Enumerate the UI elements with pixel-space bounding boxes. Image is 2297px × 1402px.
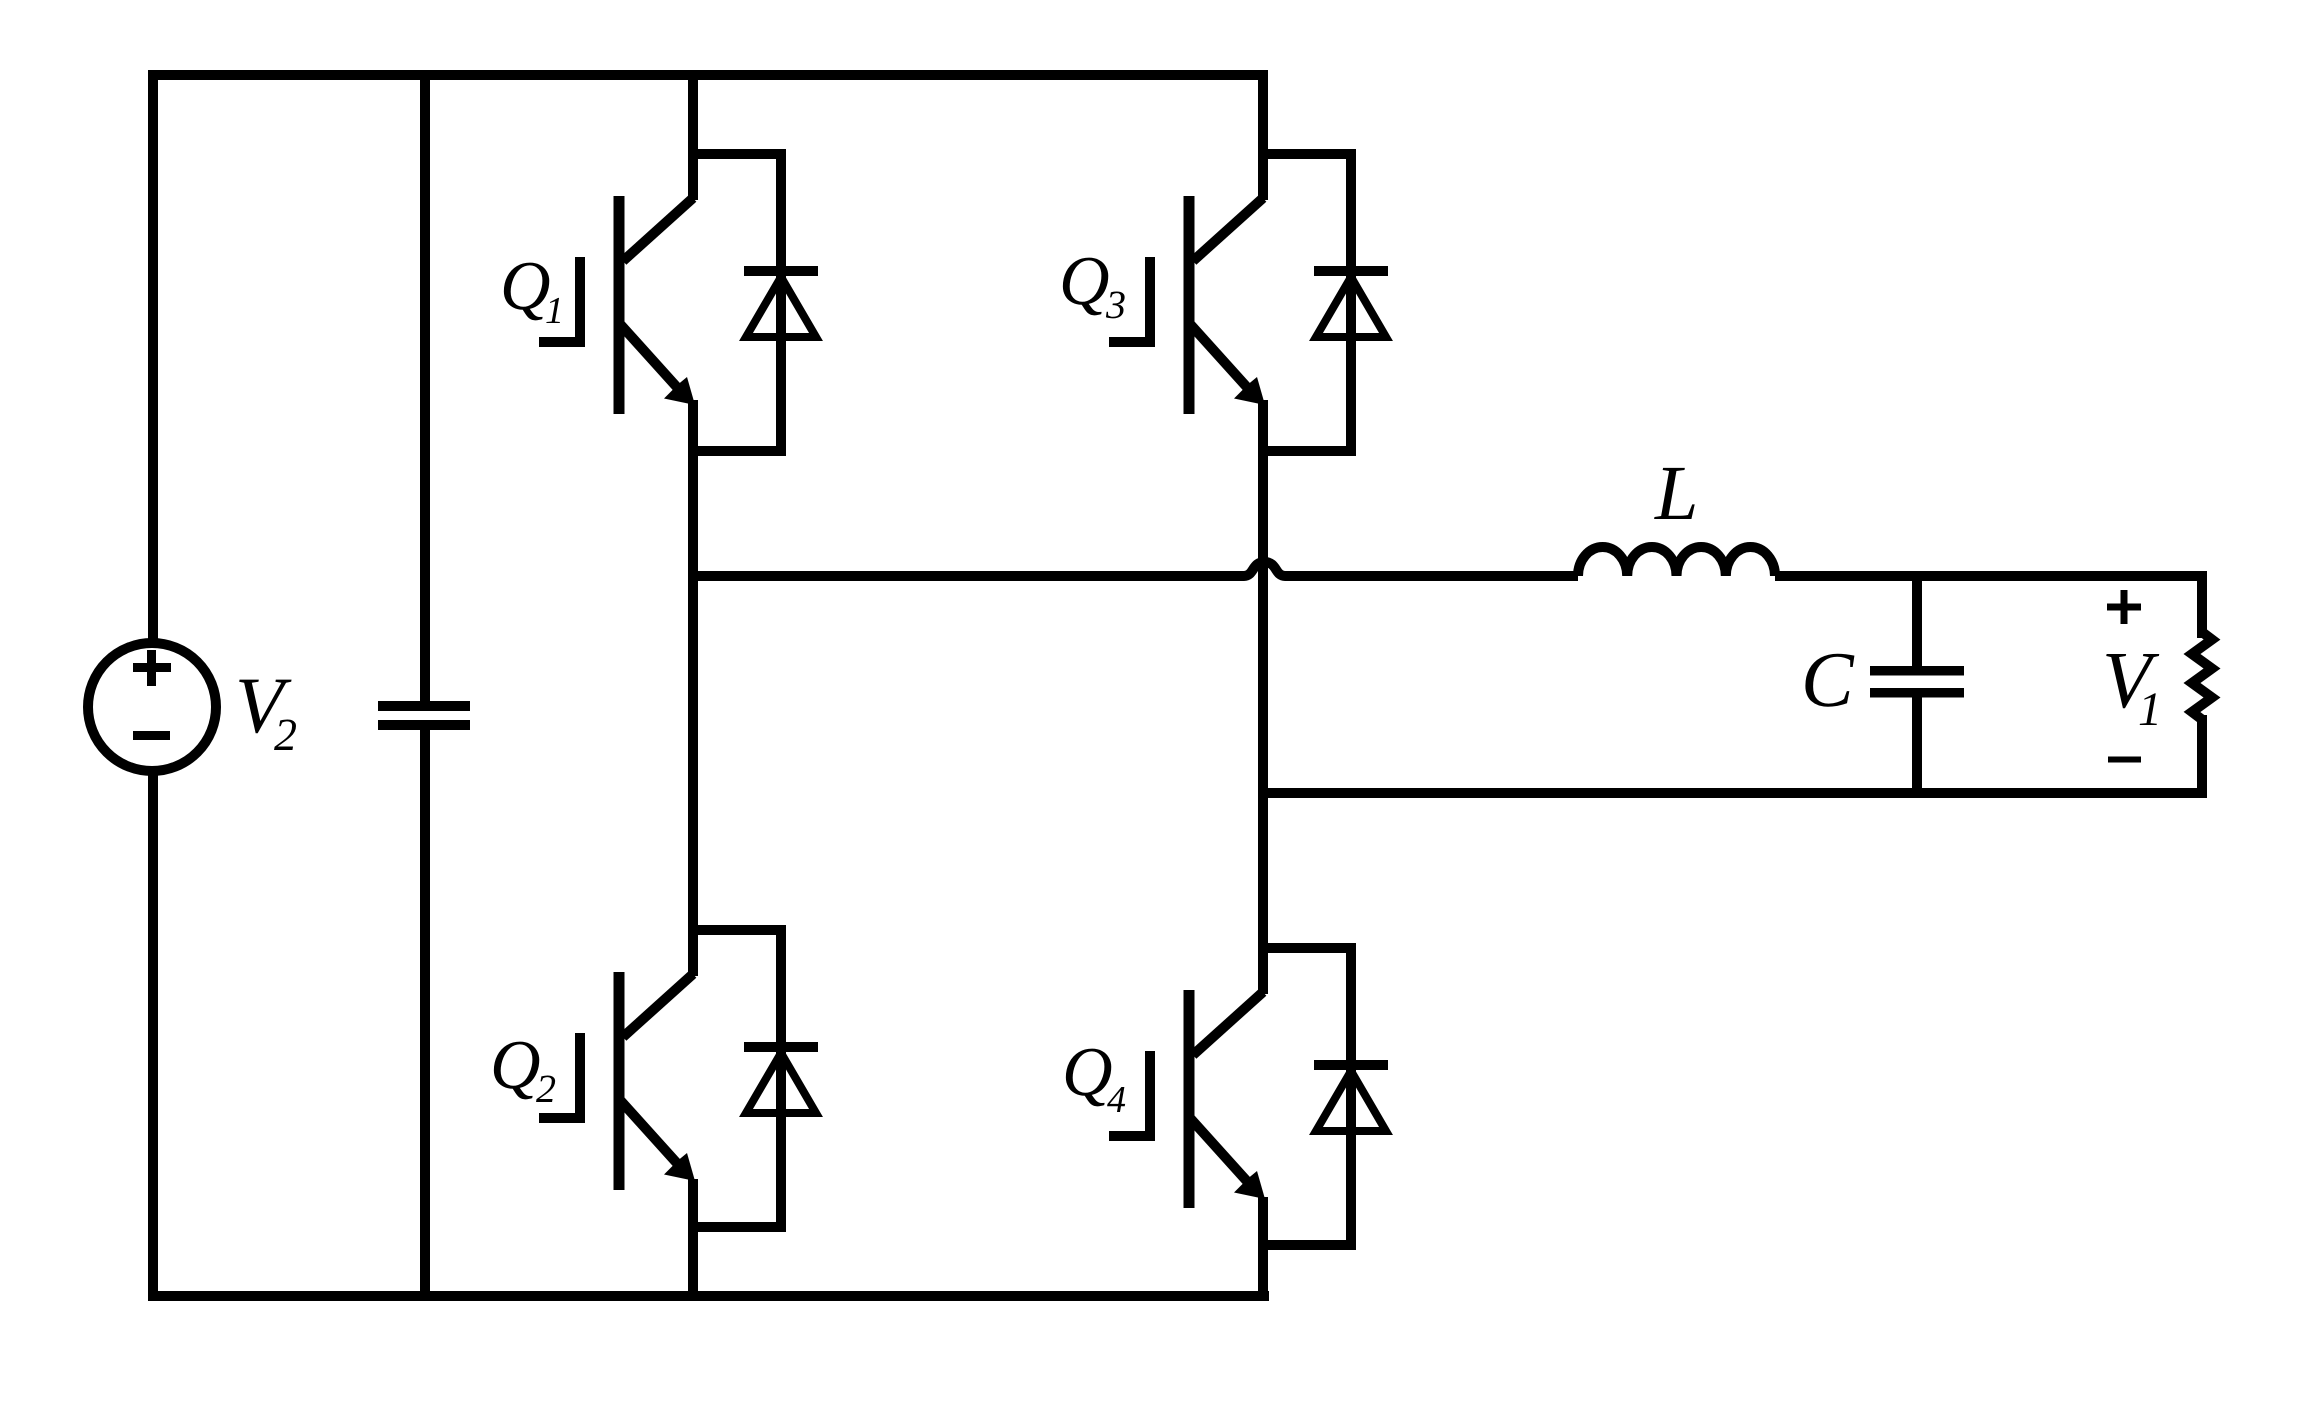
svg-text:Q: Q: [500, 248, 551, 325]
capacitor DC-link plates: [378, 701, 470, 730]
svg-text:Q: Q: [1059, 243, 1110, 320]
svg-text:2: 2: [274, 709, 297, 760]
resistor load R: [2192, 632, 2212, 720]
voltage source V2 plus sign: [133, 650, 171, 686]
wire top rail: [153, 75, 1268, 645]
voltage source V2 minus sign: [133, 731, 170, 740]
transistor Q2 with antiparallel diode: [539, 930, 818, 1227]
transistor Q4 with antiparallel diode: [1109, 948, 1388, 1245]
wire DC-link capacitor bottom leg: [420, 730, 430, 1296]
svg-text:2: 2: [536, 1066, 556, 1111]
label V1 plus sign: [2107, 590, 2141, 624]
wire Q4 emitter to bottom rail: [1258, 1197, 1268, 1296]
wire left leg middle (Q1 emitter to Q2 collector): [688, 400, 698, 976]
svg-text:Q: Q: [1062, 1034, 1113, 1111]
wire output capacitor C branch bottom: [1912, 697, 1922, 798]
svg-text:L: L: [1654, 449, 1698, 536]
wire Q3 collector feed: [1258, 70, 1268, 200]
wire bottom output rail: [1258, 788, 2202, 798]
transistor Q3 with antiparallel diode: [1109, 154, 1388, 451]
inductor L: [1578, 547, 1775, 576]
capacitor C plates: [1870, 666, 1964, 698]
svg-text:4: 4: [1107, 1079, 1126, 1121]
wire lower-left vertical: [148, 770, 158, 1296]
svg-text:Q: Q: [490, 1027, 541, 1104]
svg-text:1: 1: [545, 290, 564, 332]
wire right leg middle (Q3 emitter to Q4 collector): [1258, 400, 1268, 994]
svg-text:1: 1: [2138, 683, 2162, 736]
wire inductor to output corner: [1775, 576, 2202, 638]
wire bottom rail: [148, 1291, 1269, 1301]
svg-text:3: 3: [1105, 282, 1126, 327]
wire Q2 emitter to bottom rail: [688, 1179, 698, 1296]
wire DC-link capacitor top leg: [420, 70, 430, 701]
voltage source V2 circle: [88, 643, 216, 771]
svg-text:C: C: [1801, 637, 1855, 724]
wire mid rail from node A with crossover hop to inductor: [688, 562, 1578, 576]
wire resistor bottom to rail corner: [2197, 715, 2207, 798]
transistor Q1 with antiparallel diode: [539, 154, 818, 451]
label V1 minus sign: [2108, 757, 2141, 763]
wire Q1 collector feed: [688, 70, 698, 200]
wire output capacitor C branch top: [1912, 571, 1922, 667]
